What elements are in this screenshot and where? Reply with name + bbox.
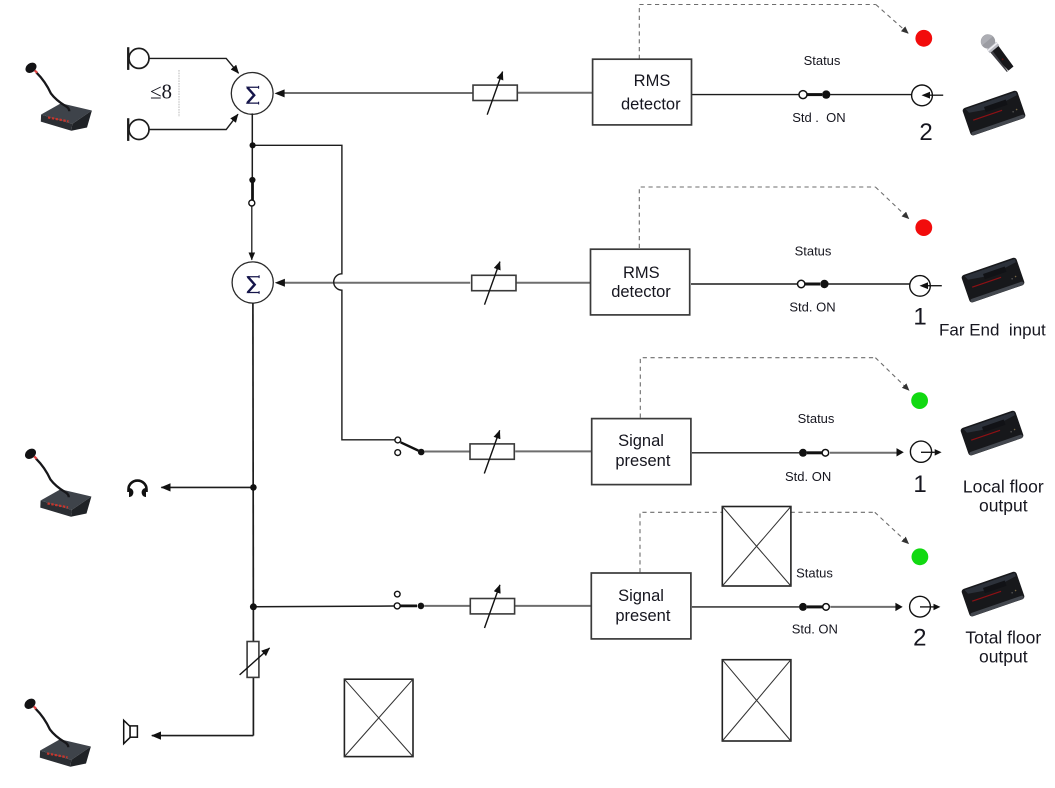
svg-text:RMS: RMS — [634, 72, 671, 90]
svg-text:present: present — [615, 607, 670, 625]
svg-text:2: 2 — [913, 625, 926, 652]
svg-text:Std. ON: Std. ON — [792, 622, 838, 637]
svg-text:detector: detector — [621, 95, 681, 113]
svg-text:present: present — [615, 452, 670, 470]
svg-text:Total floor: Total floor — [965, 628, 1041, 648]
svg-text:Std. ON: Std. ON — [785, 469, 831, 484]
svg-text:Status: Status — [804, 53, 841, 68]
svg-text:Std . ON: Std . ON — [792, 110, 845, 125]
svg-text:1: 1 — [913, 471, 926, 498]
svg-text:Std. ON: Std. ON — [789, 300, 835, 315]
svg-text:≤8: ≤8 — [150, 80, 172, 104]
svg-text:detector: detector — [611, 283, 671, 301]
svg-text:RMS: RMS — [623, 264, 660, 282]
svg-text:Signal: Signal — [618, 432, 664, 450]
svg-text:2: 2 — [919, 119, 932, 146]
svg-text:Status: Status — [796, 566, 833, 581]
svg-text:Far End input: Far End input — [939, 321, 1046, 340]
svg-text:Signal: Signal — [618, 587, 664, 605]
svg-text:1: 1 — [913, 304, 926, 331]
svg-text:Status: Status — [795, 244, 832, 259]
svg-text:Local floor: Local floor — [963, 477, 1044, 497]
svg-text:Status: Status — [798, 411, 835, 426]
svg-text:output: output — [979, 647, 1028, 667]
svg-text:output: output — [979, 496, 1028, 516]
